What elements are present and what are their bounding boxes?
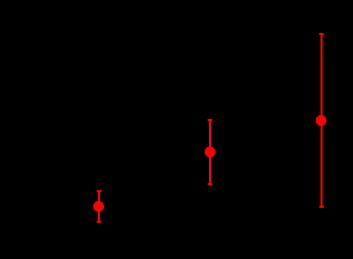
data point 2 marker	[205, 147, 216, 158]
error bar 3 (vertical line)	[321, 34, 323, 207]
error bar 3 top cap	[319, 33, 324, 35]
data point 1 marker	[93, 201, 104, 212]
error bar 1 top cap	[97, 190, 102, 192]
error bar 2 bottom cap	[208, 183, 213, 185]
error bar 3 bottom cap	[319, 206, 324, 208]
error bar 2 top cap	[208, 119, 213, 121]
error bar 1 bottom cap	[97, 221, 102, 223]
error bar 1 (vertical line)	[98, 191, 100, 222]
error bar 2 (vertical line)	[209, 120, 211, 184]
data point 3 marker	[316, 115, 327, 126]
